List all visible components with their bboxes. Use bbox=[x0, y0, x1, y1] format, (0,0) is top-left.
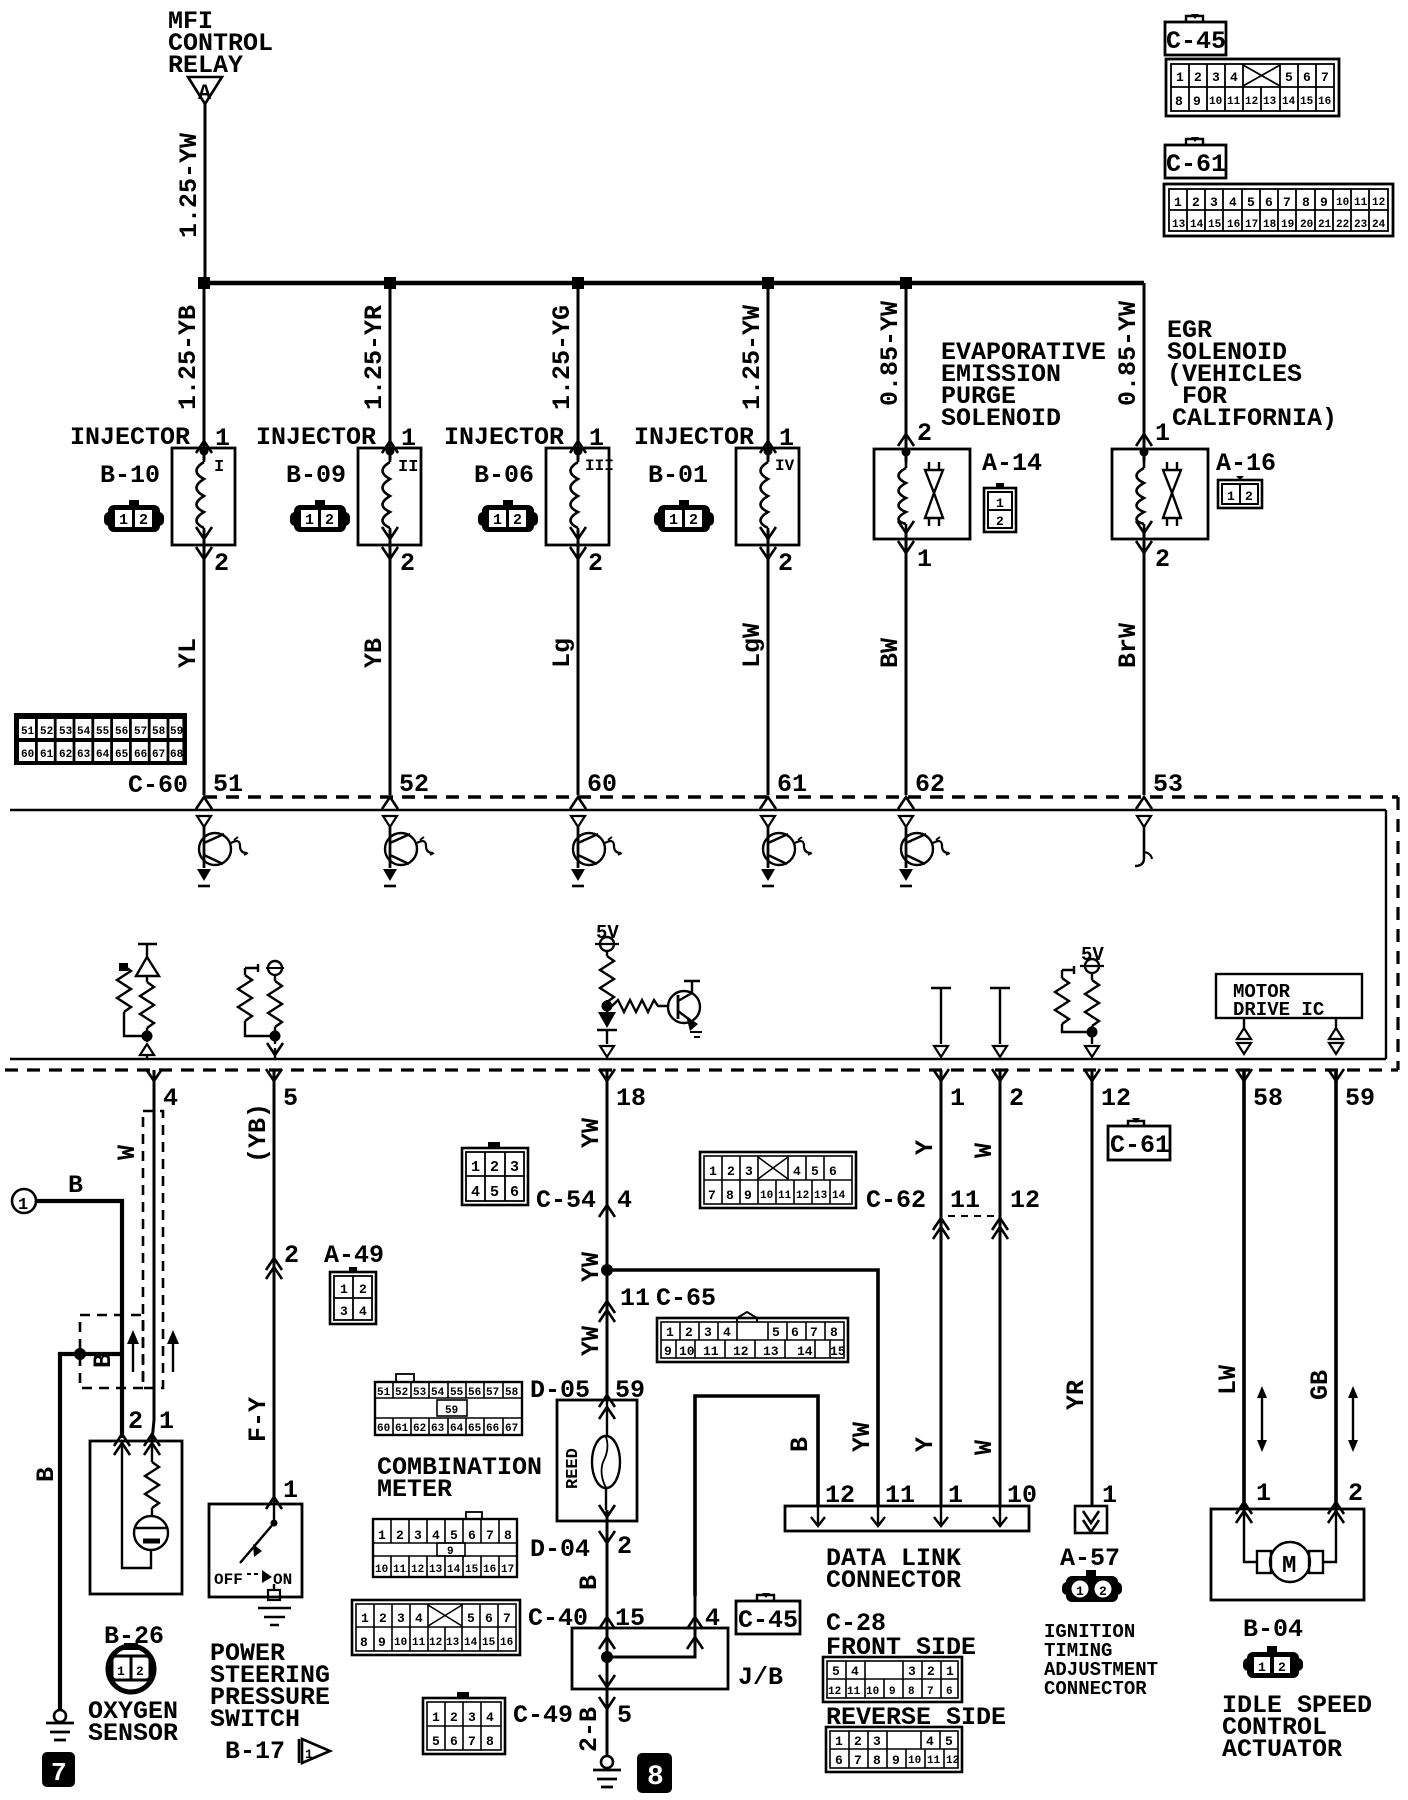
svg-text:LgW: LgW bbox=[738, 623, 767, 668]
svg-text:INJECTOR: INJECTOR bbox=[634, 423, 754, 452]
junction node at 768 bbox=[762, 277, 774, 289]
svg-text:8: 8 bbox=[1302, 195, 1310, 210]
svg-text:D-04: D-04 bbox=[530, 1535, 590, 1564]
pin 62 entry bbox=[898, 797, 914, 809]
junction node at 204 bbox=[198, 277, 210, 289]
svg-text:6: 6 bbox=[1303, 70, 1311, 85]
svg-text:W: W bbox=[113, 1145, 142, 1160]
pin 4 internal circuit bbox=[117, 944, 159, 1059]
driver transistor pin 52 bbox=[383, 816, 434, 886]
svg-text:57: 57 bbox=[134, 726, 147, 738]
svg-text:M: M bbox=[1282, 1553, 1296, 1580]
svg-text:2: 2 bbox=[917, 419, 932, 448]
oxygen sensor box bbox=[90, 1441, 182, 1594]
svg-text:3: 3 bbox=[704, 1325, 712, 1340]
pin 60 entry bbox=[570, 797, 586, 809]
svg-text:2: 2 bbox=[685, 1325, 693, 1340]
svg-text:59: 59 bbox=[1345, 1084, 1375, 1113]
svg-text:SENSOR: SENSOR bbox=[88, 1719, 178, 1748]
ECU box top edge bbox=[10, 809, 1386, 811]
ground symbol bbox=[593, 1770, 621, 1787]
svg-text:17: 17 bbox=[501, 1564, 514, 1576]
arrows into data link bbox=[811, 1506, 825, 1526]
svg-text:13: 13 bbox=[429, 1564, 443, 1576]
bottom pin 12 bbox=[1084, 1069, 1100, 1081]
pin 1 label A-16 bbox=[1136, 434, 1152, 446]
svg-text:2: 2 bbox=[617, 1532, 632, 1561]
connector B-01 icon bbox=[654, 500, 714, 532]
svg-text:15: 15 bbox=[1300, 96, 1314, 108]
svg-text:7: 7 bbox=[810, 1325, 818, 1340]
svg-text:A-16: A-16 bbox=[1216, 449, 1276, 478]
pin 61 entry bbox=[760, 797, 776, 809]
wire to ground bbox=[606, 1700, 609, 1756]
svg-text:6: 6 bbox=[829, 1164, 837, 1179]
purge solenoid A-14 bbox=[874, 448, 970, 540]
wire ECU pin12 (YR) down bbox=[1091, 1070, 1094, 1506]
svg-text:1: 1 bbox=[283, 1476, 298, 1505]
svg-text:4: 4 bbox=[723, 1325, 731, 1340]
B wire from J/B to data link pin 12 bbox=[695, 1396, 818, 1596]
svg-text:59: 59 bbox=[445, 1405, 458, 1417]
svg-text:YW: YW bbox=[577, 1326, 606, 1356]
chevron into meter bbox=[599, 1407, 615, 1419]
svg-text:4: 4 bbox=[851, 1664, 859, 1679]
svg-text:C-62: C-62 bbox=[866, 1186, 926, 1215]
svg-text:C-45: C-45 bbox=[1166, 27, 1226, 56]
svg-text:55: 55 bbox=[450, 1387, 464, 1399]
svg-text:11: 11 bbox=[927, 1755, 941, 1767]
svg-text:5: 5 bbox=[490, 1184, 499, 1201]
pin 2 label injector IV bbox=[760, 547, 776, 559]
svg-text:YW: YW bbox=[848, 1422, 877, 1452]
PS switch ground bbox=[258, 1608, 291, 1625]
svg-text:61: 61 bbox=[395, 1423, 409, 1435]
connector C-62 icon bbox=[700, 1152, 856, 1208]
svg-text:1: 1 bbox=[589, 424, 604, 453]
svg-text:53: 53 bbox=[59, 726, 73, 738]
svg-text:11: 11 bbox=[847, 1686, 861, 1698]
svg-text:2: 2 bbox=[854, 1734, 862, 1749]
svg-text:51: 51 bbox=[213, 770, 243, 799]
svg-text:22: 22 bbox=[1336, 219, 1349, 231]
svg-text:1: 1 bbox=[996, 496, 1004, 511]
svg-text:2: 2 bbox=[396, 1528, 404, 1543]
svg-text:CALIFORNIA): CALIFORNIA) bbox=[1172, 404, 1337, 433]
pin 2 label injector I bbox=[196, 547, 212, 559]
svg-text:2-B: 2-B bbox=[575, 1707, 604, 1752]
svg-text:8: 8 bbox=[873, 1753, 881, 1768]
junction dot on shield bbox=[74, 1348, 86, 1360]
svg-text:CONNECTOR: CONNECTOR bbox=[1044, 1678, 1147, 1700]
svg-text:4: 4 bbox=[359, 1304, 367, 1319]
svg-text:A-14: A-14 bbox=[982, 449, 1042, 478]
J/B exit chevron bbox=[599, 1675, 615, 1687]
svg-text:12: 12 bbox=[1245, 96, 1258, 108]
svg-text:12: 12 bbox=[796, 1190, 809, 1202]
svg-text:6: 6 bbox=[946, 1686, 953, 1698]
svg-text:I: I bbox=[214, 458, 224, 477]
svg-text:7: 7 bbox=[486, 1528, 494, 1543]
svg-text:1.25-YW: 1.25-YW bbox=[175, 133, 204, 238]
svg-text:3: 3 bbox=[340, 1304, 348, 1319]
svg-text:1: 1 bbox=[835, 1734, 843, 1749]
svg-text:3: 3 bbox=[414, 1528, 422, 1543]
svg-text:1.25-YB: 1.25-YB bbox=[174, 305, 203, 410]
svg-text:A-49: A-49 bbox=[324, 1241, 384, 1270]
off-page triangle B-17 bbox=[299, 1739, 330, 1763]
injector III bbox=[546, 447, 609, 546]
svg-text:4: 4 bbox=[617, 1186, 632, 1215]
pin 1 internal stub bbox=[931, 988, 951, 1057]
svg-text:6: 6 bbox=[1265, 195, 1273, 210]
svg-text:W: W bbox=[970, 1440, 999, 1455]
connector C-61 label box (top right) bbox=[1165, 137, 1226, 179]
bottom pin 2 bbox=[992, 1069, 1008, 1081]
svg-text:1: 1 bbox=[1258, 1660, 1266, 1675]
svg-text:III: III bbox=[585, 457, 614, 475]
junction to data link branch bbox=[601, 1264, 613, 1276]
svg-text:8: 8 bbox=[647, 1762, 664, 1793]
D-04 pin 2 crossing bbox=[599, 1531, 615, 1543]
wire through J/B bbox=[606, 1628, 609, 1700]
svg-text:10: 10 bbox=[1336, 197, 1349, 209]
connector B-04 icon bbox=[1243, 1646, 1303, 1678]
svg-text:65: 65 bbox=[468, 1423, 482, 1435]
svg-text:15: 15 bbox=[830, 1344, 846, 1359]
svg-text:55: 55 bbox=[96, 726, 110, 738]
svg-text:0.85-YW: 0.85-YW bbox=[876, 301, 905, 406]
svg-text:15: 15 bbox=[1208, 219, 1222, 231]
svg-text:7: 7 bbox=[854, 1753, 862, 1768]
svg-text:7: 7 bbox=[1283, 195, 1291, 210]
svg-text:5: 5 bbox=[772, 1325, 780, 1340]
svg-text:5: 5 bbox=[1247, 195, 1255, 210]
svg-text:YR: YR bbox=[1062, 1380, 1091, 1410]
svg-text:BrW: BrW bbox=[1114, 623, 1143, 668]
svg-text:3: 3 bbox=[468, 1710, 476, 1725]
svg-text:16: 16 bbox=[500, 1637, 513, 1649]
injector II bbox=[358, 447, 421, 546]
svg-text:64: 64 bbox=[96, 749, 110, 761]
svg-text:60: 60 bbox=[587, 770, 617, 799]
svg-text:13: 13 bbox=[446, 1637, 460, 1649]
idle speed control actuator box bbox=[1211, 1509, 1364, 1600]
bottom pin 1 bbox=[933, 1069, 949, 1081]
svg-text:14: 14 bbox=[1190, 219, 1204, 231]
svg-text:9: 9 bbox=[1320, 195, 1328, 210]
svg-text:1: 1 bbox=[917, 545, 932, 574]
svg-text:19: 19 bbox=[1281, 219, 1294, 231]
driver transistor pin 62 bbox=[899, 816, 950, 886]
wire injector4 drop bbox=[767, 283, 770, 795]
svg-text:2: 2 bbox=[359, 1282, 367, 1297]
svg-text:2: 2 bbox=[379, 1611, 387, 1626]
svg-text:9: 9 bbox=[892, 1753, 900, 1768]
svg-text:7: 7 bbox=[1321, 70, 1329, 85]
svg-text:YW: YW bbox=[577, 1252, 606, 1282]
svg-text:2: 2 bbox=[136, 1664, 144, 1679]
svg-text:1: 1 bbox=[340, 1282, 348, 1297]
junction node at 906 bbox=[900, 277, 912, 289]
svg-text:1: 1 bbox=[361, 1611, 369, 1626]
svg-text:52: 52 bbox=[40, 726, 53, 738]
connector C-60 icon bbox=[14, 713, 187, 765]
J/B entry chevron bbox=[599, 1637, 615, 1649]
svg-text:62: 62 bbox=[413, 1423, 426, 1435]
wire injector2 drop bbox=[389, 283, 392, 795]
svg-text:2: 2 bbox=[490, 1159, 499, 1176]
driver transistor pin 60 bbox=[571, 816, 622, 886]
svg-text:8: 8 bbox=[1175, 94, 1183, 109]
svg-text:13: 13 bbox=[1263, 96, 1277, 108]
connector B-09 icon bbox=[290, 500, 350, 532]
reed switch capsule bbox=[592, 1400, 620, 1510]
svg-text:1: 1 bbox=[432, 1710, 440, 1725]
C-28 front side icon bbox=[823, 1657, 962, 1702]
svg-text:9: 9 bbox=[378, 1635, 386, 1650]
svg-text:63: 63 bbox=[431, 1423, 445, 1435]
svg-text:57: 57 bbox=[486, 1387, 499, 1399]
junction node at 578 bbox=[572, 277, 584, 289]
svg-text:8: 8 bbox=[830, 1325, 838, 1340]
svg-text:INJECTOR: INJECTOR bbox=[70, 423, 190, 452]
svg-text:2: 2 bbox=[927, 1664, 935, 1679]
connector C-65 icon bbox=[657, 1312, 848, 1362]
pin 51 entry bbox=[196, 797, 212, 809]
svg-text:C-65: C-65 bbox=[656, 1284, 716, 1313]
connector A-14 icon bbox=[984, 483, 1016, 532]
C-49 pin 5 crossing bbox=[599, 1697, 615, 1709]
svg-text:3: 3 bbox=[1210, 195, 1218, 210]
direction arrow pin1 bbox=[1257, 1386, 1267, 1452]
connector C-49 icon bbox=[423, 1692, 505, 1754]
chevron out of meter bbox=[599, 1505, 615, 1517]
svg-text:16: 16 bbox=[483, 1564, 496, 1576]
svg-text:4: 4 bbox=[1230, 70, 1238, 85]
svg-text:9: 9 bbox=[447, 1546, 454, 1558]
svg-text:16: 16 bbox=[1318, 96, 1331, 108]
svg-text:12: 12 bbox=[1101, 1084, 1131, 1113]
svg-text:B-17: B-17 bbox=[225, 1737, 285, 1766]
svg-text:7: 7 bbox=[708, 1188, 716, 1203]
motor drive output 58 bbox=[1237, 1018, 1251, 1054]
svg-text:4: 4 bbox=[705, 1604, 720, 1633]
svg-text:B-10: B-10 bbox=[100, 461, 160, 490]
connector A-49 icon bbox=[330, 1267, 376, 1324]
svg-text:58: 58 bbox=[152, 726, 166, 738]
C-62 pin 12 crossing bbox=[992, 1218, 1008, 1239]
svg-text:3: 3 bbox=[745, 1164, 753, 1179]
svg-text:1: 1 bbox=[471, 1159, 480, 1176]
svg-text:2: 2 bbox=[214, 549, 229, 578]
svg-text:II: II bbox=[398, 458, 418, 477]
svg-text:OFF: OFF bbox=[214, 1571, 243, 1589]
svg-text:2: 2 bbox=[588, 549, 603, 578]
junction inside J/B bbox=[601, 1651, 613, 1663]
bottom pin 4 bbox=[146, 1069, 162, 1081]
svg-text:12: 12 bbox=[946, 1755, 959, 1767]
svg-text:1: 1 bbox=[1227, 489, 1235, 504]
svg-text:1: 1 bbox=[1076, 1584, 1084, 1599]
svg-text:1: 1 bbox=[305, 1747, 313, 1762]
svg-text:5: 5 bbox=[617, 1701, 632, 1730]
svg-text:2: 2 bbox=[1099, 1584, 1107, 1599]
branch wire to data link pin 11 bbox=[607, 1270, 878, 1506]
svg-text:7: 7 bbox=[503, 1611, 511, 1626]
svg-text:1: 1 bbox=[215, 424, 230, 453]
branch to ground wire B bbox=[60, 1354, 122, 1710]
svg-text:YL: YL bbox=[174, 638, 203, 668]
svg-text:5: 5 bbox=[467, 1611, 475, 1626]
svg-text:4: 4 bbox=[1229, 195, 1237, 210]
svg-text:8: 8 bbox=[504, 1528, 512, 1543]
wire injector1 drop bbox=[203, 283, 206, 795]
off-page icon 8 bbox=[637, 1753, 672, 1793]
wire ECU pin1 (Y) down bbox=[940, 1070, 943, 1506]
svg-text:1: 1 bbox=[378, 1528, 386, 1543]
wire B from terminal bbox=[36, 1201, 122, 1438]
svg-text:4: 4 bbox=[432, 1528, 440, 1543]
svg-text:13: 13 bbox=[1172, 219, 1186, 231]
ignition timing connector box bbox=[1075, 1506, 1107, 1533]
svg-text:2: 2 bbox=[727, 1164, 735, 1179]
ECU dashed right edge bbox=[1396, 797, 1399, 1070]
svg-text:A: A bbox=[198, 81, 212, 106]
svg-text:9: 9 bbox=[664, 1344, 672, 1359]
bottom pin 18 bbox=[599, 1069, 615, 1081]
svg-text:1: 1 bbox=[18, 1196, 28, 1215]
svg-text:F-Y: F-Y bbox=[244, 1397, 273, 1442]
svg-text:ACTUATOR: ACTUATOR bbox=[1222, 1735, 1342, 1764]
svg-text:12: 12 bbox=[1372, 197, 1385, 209]
svg-text:INJECTOR: INJECTOR bbox=[256, 423, 376, 452]
svg-text:10: 10 bbox=[1209, 96, 1222, 108]
svg-text:A-57: A-57 bbox=[1060, 1544, 1120, 1573]
ECU connector row dashed line (top, C-60) bbox=[204, 795, 1398, 799]
svg-text:12: 12 bbox=[733, 1344, 749, 1359]
connector A-57 icon bbox=[1062, 1570, 1122, 1602]
wire ECU pin5 to PS switch bbox=[273, 1070, 276, 1504]
power steering pressure switch box bbox=[209, 1504, 302, 1597]
svg-text:11: 11 bbox=[620, 1284, 650, 1313]
connector B-06 icon bbox=[478, 500, 538, 532]
connector B-26 icon bbox=[108, 1643, 154, 1692]
wire EGR solenoid drop bbox=[1143, 283, 1146, 795]
ECU box right edge bbox=[1385, 810, 1387, 1059]
bottom pin 59 bbox=[1328, 1069, 1344, 1081]
C-28 reverse side icon bbox=[826, 1727, 962, 1772]
wire ECU pin18 down (YW) bbox=[606, 1070, 609, 1400]
svg-text:1: 1 bbox=[946, 1664, 954, 1679]
svg-text:1: 1 bbox=[117, 1664, 125, 1679]
svg-text:61: 61 bbox=[777, 770, 807, 799]
svg-text:10: 10 bbox=[908, 1755, 921, 1767]
svg-text:20: 20 bbox=[1300, 219, 1313, 231]
svg-text:53: 53 bbox=[413, 1387, 427, 1399]
svg-text:5: 5 bbox=[450, 1528, 458, 1543]
svg-text:C-61: C-61 bbox=[1166, 150, 1226, 179]
svg-text:8: 8 bbox=[908, 1686, 915, 1698]
svg-text:54: 54 bbox=[77, 726, 91, 738]
junction node at 390 bbox=[384, 277, 396, 289]
svg-text:14: 14 bbox=[464, 1637, 478, 1649]
sensor cell bbox=[122, 1441, 168, 1568]
wire ECU pin58 (LW) down bbox=[1242, 1070, 1246, 1509]
dashed tie between crossings bbox=[948, 1215, 994, 1217]
svg-text:B: B bbox=[575, 1575, 604, 1590]
connector C-61 pin diagram bbox=[1164, 184, 1393, 236]
svg-text:24: 24 bbox=[1372, 219, 1386, 231]
branch to C-45 / data link pin 12 bbox=[607, 1596, 695, 1657]
svg-text:61: 61 bbox=[40, 749, 54, 761]
svg-text:2: 2 bbox=[1192, 195, 1200, 210]
svg-text:63: 63 bbox=[77, 749, 91, 761]
connector C-45 label box (top right) bbox=[1165, 14, 1226, 56]
motor symbol bbox=[1244, 1509, 1336, 1582]
MOTOR DRIVE IC bbox=[1216, 974, 1362, 1021]
svg-text:B: B bbox=[786, 1437, 815, 1452]
svg-text:51: 51 bbox=[21, 726, 35, 738]
svg-text:8: 8 bbox=[486, 1734, 494, 1749]
svg-text:13: 13 bbox=[814, 1190, 828, 1202]
svg-text:J/B: J/B bbox=[738, 1663, 783, 1692]
signal direction arrow right bbox=[167, 1330, 179, 1372]
svg-text:9: 9 bbox=[1193, 94, 1201, 109]
svg-text:4: 4 bbox=[471, 1184, 480, 1201]
pin 2 label A-14 bbox=[898, 434, 914, 446]
svg-text:14: 14 bbox=[1282, 96, 1296, 108]
svg-text:3: 3 bbox=[908, 1664, 916, 1679]
svg-text:LW: LW bbox=[1214, 1365, 1243, 1395]
svg-text:54: 54 bbox=[431, 1387, 445, 1399]
svg-text:62: 62 bbox=[915, 770, 945, 799]
ground symbol bbox=[46, 1723, 74, 1740]
combination meter box bbox=[557, 1400, 637, 1521]
svg-text:10: 10 bbox=[375, 1564, 388, 1576]
svg-text:3: 3 bbox=[1212, 70, 1220, 85]
svg-text:6: 6 bbox=[791, 1325, 799, 1340]
svg-text:17: 17 bbox=[1245, 219, 1258, 231]
wire from relay to bus bbox=[204, 104, 207, 283]
wire injector3 drop bbox=[577, 283, 580, 795]
svg-text:6: 6 bbox=[510, 1184, 519, 1201]
svg-text:11: 11 bbox=[778, 1190, 792, 1202]
svg-text:62: 62 bbox=[59, 749, 72, 761]
svg-text:Y: Y bbox=[911, 1437, 940, 1452]
connector A-16 icon bbox=[1218, 476, 1262, 508]
B-04 pin 1 bbox=[1236, 1502, 1252, 1523]
connector B-10 icon bbox=[104, 500, 164, 532]
svg-text:B-01: B-01 bbox=[648, 461, 708, 490]
driver transistor pin 61 bbox=[761, 816, 812, 886]
svg-text:Lg: Lg bbox=[548, 638, 577, 668]
svg-text:12: 12 bbox=[828, 1686, 841, 1698]
wire ECU pin4 to oxygen sensor pin1 bbox=[152, 1070, 154, 1441]
svg-text:IV: IV bbox=[775, 457, 795, 475]
svg-text:C-54: C-54 bbox=[536, 1186, 596, 1215]
svg-text:16: 16 bbox=[1227, 219, 1240, 231]
svg-text:YW: YW bbox=[577, 1118, 606, 1148]
svg-text:3: 3 bbox=[510, 1159, 519, 1176]
pin 5 internal circuit bbox=[238, 961, 284, 1059]
svg-text:66: 66 bbox=[486, 1423, 499, 1435]
injector I bbox=[172, 447, 235, 546]
svg-text:8: 8 bbox=[726, 1188, 734, 1203]
svg-text:1.25-YG: 1.25-YG bbox=[548, 305, 577, 410]
svg-text:C-60: C-60 bbox=[128, 771, 188, 800]
svg-text:5: 5 bbox=[832, 1664, 840, 1679]
